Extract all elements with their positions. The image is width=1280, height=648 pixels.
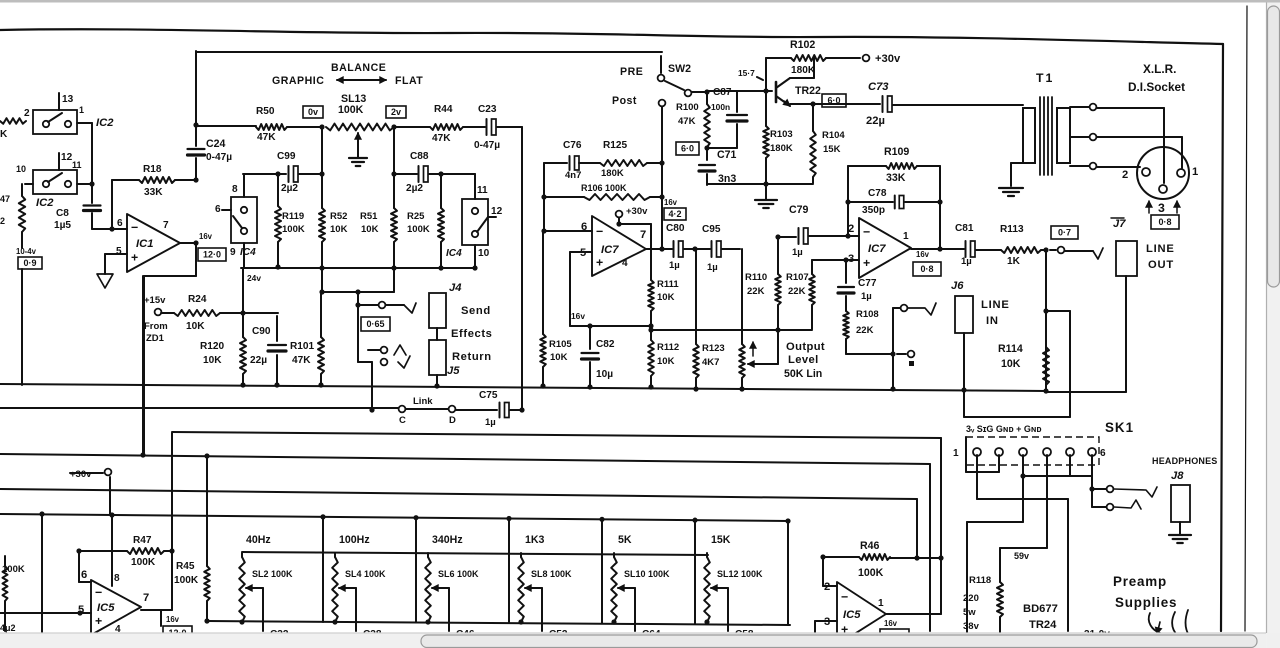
wire C76 rail bbox=[544, 162, 567, 164]
transformer T1 primary bbox=[1023, 108, 1035, 163]
jack J4 box bbox=[429, 293, 446, 328]
SK1 pin3 bbox=[1019, 448, 1027, 456]
resistor R45 bbox=[204, 456, 210, 624]
wire pin5 IC5a bbox=[0, 610, 91, 615]
svg-text:220: 220 bbox=[963, 593, 979, 604]
label pin6 IC7a bbox=[581, 221, 587, 233]
svg-text:1µ: 1µ bbox=[861, 291, 872, 302]
svg-text:R120: R120 bbox=[200, 341, 225, 352]
slider SL2 bbox=[239, 553, 245, 625]
svg-text:10: 10 bbox=[16, 164, 26, 174]
svg-text:2: 2 bbox=[824, 581, 830, 593]
svg-text:50K Lin: 50K Lin bbox=[784, 368, 822, 380]
terminal +30v lower bbox=[70, 469, 111, 480]
svg-text:2: 2 bbox=[848, 223, 854, 235]
label R103 bbox=[770, 129, 793, 154]
svg-text:+30v: +30v bbox=[875, 53, 901, 65]
svg-text:J8: J8 bbox=[1171, 470, 1184, 482]
node IC1 in bbox=[109, 226, 114, 231]
label PREAMP bbox=[1113, 574, 1167, 589]
svg-text:BD677: BD677 bbox=[1023, 603, 1058, 615]
jack contact B1 bbox=[368, 345, 406, 355]
slider SL6 bbox=[425, 553, 431, 625]
svg-text:6: 6 bbox=[1100, 448, 1106, 459]
resistor R109 bbox=[848, 163, 940, 169]
label R101 bbox=[290, 341, 315, 366]
node C99 right bbox=[319, 171, 324, 176]
wire jack B down bbox=[369, 362, 374, 413]
horizontal scrollbar thumb bbox=[421, 635, 1257, 648]
svg-text:C95: C95 bbox=[702, 224, 721, 235]
svg-text:+: + bbox=[95, 614, 102, 628]
label FLAT bbox=[395, 75, 423, 87]
resistor R50 bbox=[196, 124, 322, 130]
wire pin6 IC5a bbox=[79, 551, 91, 582]
svg-text:+: + bbox=[596, 256, 603, 270]
svg-text:0v: 0v bbox=[308, 107, 318, 117]
label C81 bbox=[955, 223, 974, 267]
svg-text:C75: C75 bbox=[479, 390, 498, 401]
wire y292 bbox=[319, 268, 394, 295]
jack J7 contact bbox=[1050, 247, 1103, 259]
label C24 bbox=[206, 138, 232, 163]
resistor R107 bbox=[809, 260, 815, 329]
switch IC4 right box bbox=[462, 199, 488, 245]
ground J8 bbox=[1169, 522, 1191, 543]
label 40Hz bbox=[246, 534, 271, 546]
svg-text:C82: C82 bbox=[596, 339, 615, 350]
label R110 bbox=[745, 272, 767, 297]
label DI socket bbox=[1128, 80, 1185, 94]
svg-text:R46: R46 bbox=[860, 540, 880, 552]
capacitor C46 bbox=[440, 629, 475, 645]
resistor R123 bbox=[693, 249, 699, 392]
XLR pin3 bbox=[1159, 185, 1167, 193]
wire R17 down bbox=[21, 232, 23, 248]
wire IC4b down bbox=[472, 245, 477, 271]
svg-text:180K: 180K bbox=[791, 65, 816, 76]
svg-text:OUT: OUT bbox=[1148, 259, 1174, 271]
svg-text:10K: 10K bbox=[1001, 358, 1021, 370]
svg-text:Output: Output bbox=[786, 341, 825, 353]
label pin9 bbox=[230, 247, 236, 258]
label C77 bbox=[858, 278, 877, 302]
label R109 bbox=[884, 146, 909, 184]
resistor R24 bbox=[161, 310, 278, 316]
node C88 left bbox=[391, 171, 396, 176]
svg-text:SW2: SW2 bbox=[668, 63, 691, 75]
svg-text:0·7: 0·7 bbox=[1058, 228, 1071, 238]
label XLR bbox=[1143, 62, 1176, 76]
svg-text:16v: 16v bbox=[664, 198, 678, 207]
label BD677 bbox=[1023, 603, 1058, 631]
svg-text:Link: Link bbox=[413, 396, 433, 407]
wire J6 box down bbox=[961, 333, 966, 417]
capacitor C81 bbox=[966, 241, 1002, 257]
svg-text:From: From bbox=[144, 321, 168, 332]
transformer T1 core bbox=[1040, 97, 1052, 175]
wire fb verticals bbox=[845, 166, 942, 252]
svg-text:100K: 100K bbox=[282, 224, 305, 235]
label C79 bbox=[789, 204, 809, 258]
border 340Hz bbox=[506, 516, 511, 623]
label SL12 100K bbox=[717, 569, 763, 579]
svg-text:22K: 22K bbox=[856, 325, 874, 336]
svg-text:16v: 16v bbox=[884, 619, 898, 628]
svg-text:350p: 350p bbox=[862, 205, 885, 216]
svg-text:SK1: SK1 bbox=[1105, 420, 1134, 435]
svg-text:180K: 180K bbox=[601, 168, 624, 179]
jack J8 box bbox=[1171, 485, 1190, 522]
svg-text:47K: 47K bbox=[678, 116, 696, 127]
label R52 bbox=[330, 211, 348, 235]
rail y433 bbox=[172, 432, 941, 438]
label FROM ZD1 bbox=[144, 321, 168, 344]
svg-text:47K: 47K bbox=[257, 132, 276, 143]
resistor R106 bbox=[541, 194, 664, 200]
label R119 bbox=[282, 211, 305, 235]
svg-text:J6: J6 bbox=[951, 280, 964, 292]
capacitor C95 bbox=[712, 241, 741, 257]
label LINE OUT bbox=[1146, 243, 1175, 271]
label pin10 IC4 bbox=[478, 248, 490, 259]
wire pin2 IC5b bbox=[823, 557, 837, 586]
svg-text:J5: J5 bbox=[447, 365, 460, 377]
border 100Hz bbox=[413, 515, 418, 622]
resistor R46 bbox=[820, 554, 943, 561]
svg-text:12: 12 bbox=[491, 206, 503, 217]
label C78 bbox=[862, 188, 887, 216]
label GRAPHIC bbox=[272, 75, 324, 87]
svg-text:D: D bbox=[449, 415, 456, 426]
label pin3 IC5b bbox=[824, 616, 830, 628]
svg-text:340Hz: 340Hz bbox=[432, 534, 463, 546]
label pin6 IC5a bbox=[81, 569, 87, 581]
svg-text:24v: 24v bbox=[247, 273, 261, 283]
squiggle arrows bbox=[1149, 610, 1190, 637]
svg-text:SL12 100K: SL12 100K bbox=[717, 569, 763, 579]
SK1 dashed box bbox=[966, 437, 1099, 465]
label PRE bbox=[620, 66, 643, 78]
jack J7 box bbox=[1116, 241, 1137, 276]
label J5 bbox=[447, 365, 460, 377]
svg-text:ZD1: ZD1 bbox=[146, 333, 165, 344]
svg-text:2µ2: 2µ2 bbox=[281, 183, 298, 194]
svg-text:Send: Send bbox=[461, 305, 491, 317]
svg-text:7: 7 bbox=[143, 592, 149, 604]
wire IC4a down bbox=[243, 243, 245, 268]
svg-text:TR22: TR22 bbox=[795, 85, 821, 97]
svg-text:IC4: IC4 bbox=[446, 248, 462, 259]
op-amp IC5 second bbox=[837, 582, 886, 645]
rail TR22 gnd bbox=[707, 181, 813, 186]
svg-text:10K: 10K bbox=[330, 224, 348, 235]
switch IC2 lower box bbox=[33, 170, 77, 194]
label C82 bbox=[596, 339, 615, 380]
capacitor C64 bbox=[626, 629, 661, 645]
wire jack B bbox=[358, 305, 372, 362]
svg-text:T1: T1 bbox=[1036, 71, 1054, 85]
svg-text:47: 47 bbox=[0, 194, 10, 204]
svg-text:+30v: +30v bbox=[626, 206, 648, 217]
wire out down-left bbox=[144, 243, 196, 456]
svg-text:R104: R104 bbox=[822, 130, 845, 141]
svg-text:IN: IN bbox=[986, 315, 999, 327]
node C88 right bbox=[438, 171, 443, 176]
svg-text:C24: C24 bbox=[206, 138, 226, 150]
label pin3 IC7b bbox=[848, 253, 854, 265]
label pin12 IC4 bbox=[488, 206, 503, 217]
scrollbar corner bbox=[1267, 633, 1280, 648]
rail 16v bbox=[570, 311, 651, 329]
svg-text:C8: C8 bbox=[56, 208, 69, 219]
switch IC2 upper box bbox=[33, 110, 77, 134]
label C90 bbox=[250, 326, 271, 366]
transistor TR22 bbox=[776, 78, 790, 106]
svg-text:J7: J7 bbox=[1113, 218, 1126, 230]
svg-text:PRE: PRE bbox=[620, 66, 643, 78]
svg-text:4·2: 4·2 bbox=[668, 209, 681, 219]
pot wiper bbox=[748, 327, 781, 367]
wire IC7b out bbox=[911, 248, 964, 250]
svg-text:C78: C78 bbox=[868, 188, 887, 199]
box 0-8 xlr bbox=[1151, 215, 1179, 229]
label 15-7 bbox=[738, 68, 763, 80]
wire tap mid bbox=[1070, 134, 1182, 168]
wire base bbox=[737, 88, 772, 93]
wire x143 end bbox=[142, 276, 144, 456]
wire frame corner bbox=[196, 51, 662, 125]
resistor R101 bbox=[318, 292, 324, 388]
wire IC2a to C8 bus bbox=[77, 123, 92, 200]
resistor R111 bbox=[648, 224, 654, 329]
horizontal scrollbar track bbox=[0, 633, 1266, 648]
label SEND bbox=[461, 305, 491, 317]
ground T1 bbox=[999, 188, 1023, 196]
svg-text:−: − bbox=[131, 221, 138, 235]
svg-text:R111: R111 bbox=[657, 279, 679, 290]
XLR pin2 bbox=[1122, 168, 1150, 181]
box 2v bbox=[386, 106, 406, 118]
svg-text:8: 8 bbox=[232, 184, 238, 195]
resistor R110 bbox=[775, 234, 781, 330]
label SUPPLIES bbox=[1115, 595, 1177, 610]
border 1K3 bbox=[599, 517, 604, 624]
box 0-65 bbox=[361, 317, 390, 331]
svg-text:1µ: 1µ bbox=[485, 417, 496, 428]
terminal +15v bbox=[144, 295, 166, 315]
label 16v IC5b bbox=[884, 619, 898, 628]
wire r110 r107 join bbox=[648, 327, 812, 332]
svg-text:C99: C99 bbox=[277, 151, 296, 162]
wire J7 down bbox=[1125, 276, 1127, 392]
svg-text:R123: R123 bbox=[702, 343, 725, 354]
label C71 bbox=[717, 149, 737, 185]
svg-text:C: C bbox=[399, 415, 406, 426]
label 100K left bbox=[2, 564, 25, 575]
wire y455 corner bbox=[929, 464, 931, 631]
SK1 pin4 bbox=[1043, 448, 1051, 456]
svg-text:FLAT: FLAT bbox=[395, 75, 423, 87]
label C80 bbox=[666, 223, 685, 271]
wire y433 right corner bbox=[940, 438, 942, 558]
wire pin3 IC7b bbox=[812, 257, 859, 262]
label T1 bbox=[1036, 71, 1054, 85]
wiper SL10 bbox=[618, 585, 635, 631]
svg-text:R101: R101 bbox=[290, 341, 315, 352]
svg-text:1: 1 bbox=[79, 105, 84, 115]
label C76 bbox=[563, 140, 582, 181]
svg-text:2: 2 bbox=[0, 216, 5, 226]
svg-text:Preamp: Preamp bbox=[1113, 574, 1167, 589]
svg-text:22K: 22K bbox=[788, 286, 806, 297]
label SL4 100K bbox=[345, 569, 386, 579]
node rail R50 bbox=[193, 122, 198, 127]
svg-text:8: 8 bbox=[114, 573, 120, 584]
svg-text:+15v: +15v bbox=[144, 295, 166, 306]
label IC4 left bbox=[240, 247, 256, 258]
op-amp IC7 first bbox=[592, 216, 646, 276]
slider SL4 bbox=[332, 553, 338, 625]
wire pin6 IC7a bbox=[541, 228, 592, 233]
resistor R120 bbox=[240, 313, 246, 388]
svg-text:22K: 22K bbox=[747, 286, 765, 297]
resistor R100 bbox=[704, 92, 710, 160]
terminal +30v TR22 bbox=[863, 53, 901, 65]
svg-text:3: 3 bbox=[1158, 201, 1165, 215]
svg-text:C90: C90 bbox=[252, 326, 271, 337]
label SL8 100K bbox=[531, 569, 572, 579]
label IC4 right bbox=[446, 248, 462, 259]
svg-text:1µ: 1µ bbox=[707, 262, 718, 273]
svg-text:100K: 100K bbox=[407, 224, 430, 235]
svg-text:4K7: 4K7 bbox=[702, 357, 719, 368]
label R25 bbox=[407, 211, 430, 235]
wire jack A bbox=[355, 292, 378, 308]
resistor R104 bbox=[810, 104, 816, 183]
wiper SL2 bbox=[246, 585, 263, 631]
XLR pin1 bbox=[1177, 166, 1198, 178]
svg-text:4: 4 bbox=[622, 258, 628, 269]
resistor R114 bbox=[1043, 347, 1049, 394]
wire post to out bbox=[659, 105, 664, 252]
label pin5 IC1 bbox=[116, 246, 122, 257]
node rail dots bbox=[39, 452, 209, 517]
wiper SL8 bbox=[525, 585, 542, 631]
svg-text:16v: 16v bbox=[166, 615, 180, 624]
svg-text:IC1: IC1 bbox=[136, 238, 153, 250]
svg-text:6: 6 bbox=[117, 218, 123, 229]
label LINE IN bbox=[981, 299, 1010, 327]
label BALANCE bbox=[331, 62, 386, 74]
svg-text:6: 6 bbox=[81, 569, 87, 581]
wire pin11 to bus bbox=[77, 181, 95, 186]
rail gnd main bbox=[0, 384, 1126, 392]
box 12-0 IC1 bbox=[198, 248, 226, 261]
wire tap bot bbox=[1070, 163, 1140, 170]
svg-text:R118: R118 bbox=[969, 575, 991, 586]
label C87 bbox=[711, 87, 732, 112]
svg-text:0-47µ: 0-47µ bbox=[474, 140, 500, 151]
svg-text:10K: 10K bbox=[550, 352, 568, 363]
capacitor C8 bbox=[84, 200, 113, 229]
border 40Hz bbox=[320, 514, 325, 622]
svg-text:IC7: IC7 bbox=[601, 244, 619, 256]
label pin2 IC7b bbox=[848, 223, 854, 235]
svg-text:K: K bbox=[0, 129, 8, 140]
vertical scrollbar thumb bbox=[1268, 6, 1280, 287]
pot output level bbox=[739, 249, 745, 392]
wire pin2 IC7b bbox=[847, 235, 859, 237]
svg-text:3ᵥ SɪG Gɴᴅ + Gɴᴅ: 3ᵥ SɪG Gɴᴅ + Gɴᴅ bbox=[966, 424, 1042, 434]
node R24 bbox=[240, 310, 245, 315]
capacitor C71 bbox=[699, 165, 715, 185]
label J8 bbox=[1171, 470, 1184, 482]
svg-text:15·7: 15·7 bbox=[738, 68, 755, 78]
label J7 bbox=[1111, 218, 1126, 230]
svg-text:R52: R52 bbox=[330, 211, 347, 222]
wire C78 row bbox=[845, 199, 942, 204]
label K bbox=[0, 129, 8, 140]
wire emitter bbox=[790, 101, 880, 106]
svg-text:BALANCE: BALANCE bbox=[331, 62, 386, 74]
wire fb left bbox=[543, 163, 545, 231]
svg-text:9: 9 bbox=[230, 247, 236, 258]
svg-text:13: 13 bbox=[62, 94, 74, 105]
label R105 bbox=[549, 339, 572, 363]
SK1 box bottom bbox=[966, 437, 999, 472]
svg-text:10-4v: 10-4v bbox=[16, 247, 37, 256]
svg-text:R18: R18 bbox=[143, 164, 162, 175]
label C95 bbox=[702, 224, 721, 273]
label J6 bbox=[951, 280, 964, 292]
wire x322 bbox=[321, 127, 323, 174]
resistor R105 bbox=[540, 231, 546, 389]
svg-text:GRAPHIC: GRAPHIC bbox=[272, 75, 324, 87]
svg-text:R44: R44 bbox=[434, 104, 453, 115]
svg-text:6·0: 6·0 bbox=[827, 96, 840, 106]
svg-text:+: + bbox=[131, 251, 138, 265]
wire tap top bbox=[1070, 104, 1164, 183]
schematic frame top edge bbox=[0, 29, 1223, 44]
SK1 wire c bbox=[967, 476, 1023, 633]
node R113 bbox=[1043, 247, 1048, 252]
label C75 bbox=[479, 390, 498, 428]
schematic frame right edge bbox=[1221, 44, 1223, 631]
svg-text:10K: 10K bbox=[361, 224, 379, 235]
svg-text:R24: R24 bbox=[188, 294, 207, 305]
post terminal bbox=[659, 100, 666, 163]
label R114 bbox=[998, 343, 1023, 370]
label 1K3 bbox=[525, 534, 545, 546]
svg-text:R110: R110 bbox=[745, 272, 767, 283]
slider SL8 bbox=[518, 553, 524, 625]
ground IC1 bbox=[97, 274, 113, 288]
arrow balance bbox=[337, 77, 386, 83]
slider SL10 bbox=[611, 553, 617, 625]
wire y490 corner bbox=[916, 499, 918, 558]
capacitor C24 bbox=[188, 125, 205, 180]
label left cut bbox=[0, 556, 16, 633]
svg-text:C88: C88 bbox=[410, 151, 429, 162]
wire C99 row bbox=[243, 173, 286, 175]
svg-text:10K: 10K bbox=[657, 292, 675, 303]
svg-text:180K: 180K bbox=[770, 143, 793, 154]
label R17 bbox=[0, 194, 10, 226]
label pin4 IC5a bbox=[115, 624, 121, 635]
transformer T1 secondary bbox=[1057, 108, 1070, 163]
svg-text:LINE: LINE bbox=[981, 299, 1010, 311]
